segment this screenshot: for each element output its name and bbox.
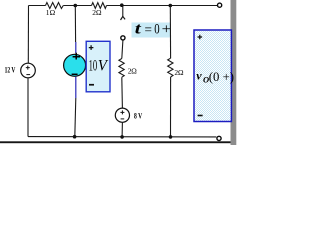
wire: from 8V source to bottom rail: [121, 122, 123, 137]
wire: blue stub below 10V source: [75, 77, 77, 98]
resistor 2 ohm (right vertical): [168, 58, 173, 77]
node E (bottom of 8V branch): [120, 135, 124, 139]
wire: blue stub above 10V source: [75, 42, 77, 53]
wire: left rail down to 12V source: [27, 6, 29, 64]
voltage source 12V: [21, 63, 36, 78]
wire: from right resistor to bottom rail: [170, 77, 172, 137]
voltage source 8V: [115, 108, 129, 122]
minus polarity of output box: [198, 115, 203, 117]
switch terminal (open circle, bottom right): [217, 136, 221, 140]
svg-text:Ω: Ω: [96, 8, 102, 17]
svg-text:0: 0: [154, 22, 159, 38]
node B (junction switch branch): [120, 3, 124, 7]
plus polarity of output box: [198, 35, 203, 40]
svg-text:Ω: Ω: [50, 8, 56, 17]
resistor 1 ohm (top): [46, 3, 64, 9]
wire: from 10V source to bottom rail: [75, 98, 76, 137]
node D (bottom of 10V branch): [73, 135, 77, 139]
gray page-edge bar: [231, 0, 237, 145]
switch blade with arrowhead: [121, 6, 126, 21]
node A (junction after 1 ohm): [74, 4, 78, 8]
wire: from resistor down to 8V source: [121, 77, 124, 108]
svg-text:12 V: 12 V: [5, 64, 16, 74]
t=0+ highlight: [132, 23, 172, 38]
bottom page rule: [0, 141, 231, 143]
svg-text:t: t: [135, 21, 142, 38]
svg-text:V: V: [98, 57, 108, 74]
svg-text:Ω: Ω: [178, 68, 184, 77]
svg-text:10: 10: [89, 57, 98, 74]
wire: from switch terminal down to resistor: [122, 40, 123, 58]
switch time label t = 0+: [135, 21, 171, 38]
svg-text:v: v: [196, 69, 202, 83]
node C (junction right branch): [169, 4, 173, 8]
voltage source 10V (capacitor replacement, highlighted): [64, 53, 86, 77]
wire: bottom rail: [28, 136, 216, 138]
switch terminal (open circle, middle branch): [121, 36, 125, 40]
svg-text:+: +: [162, 21, 171, 37]
wire: from node C down to right resistor: [169, 6, 171, 59]
svg-text:Ω: Ω: [131, 66, 137, 75]
svg-text:8 V: 8 V: [134, 111, 143, 121]
svg-text:=: =: [145, 22, 152, 37]
node F (bottom of right branch): [169, 135, 173, 139]
resistor 2 ohm (middle vertical): [119, 59, 124, 78]
wire: top left horizontal: [29, 5, 46, 7]
wire: between resistors: [63, 5, 91, 7]
svg-text:(0 +): (0 +): [209, 70, 234, 84]
resistor 2 ohm (top): [92, 3, 107, 9]
switch terminal (open circle, top right): [218, 3, 222, 7]
wire: left rail below 12V source: [27, 78, 29, 137]
value box 10V: [86, 41, 110, 92]
wire: top right horizontal to switch terminal: [107, 5, 218, 7]
node label vo(0+): [196, 69, 234, 85]
wire: from node A down to 10V source: [74, 6, 76, 43]
output box (hatched): [194, 30, 231, 122]
